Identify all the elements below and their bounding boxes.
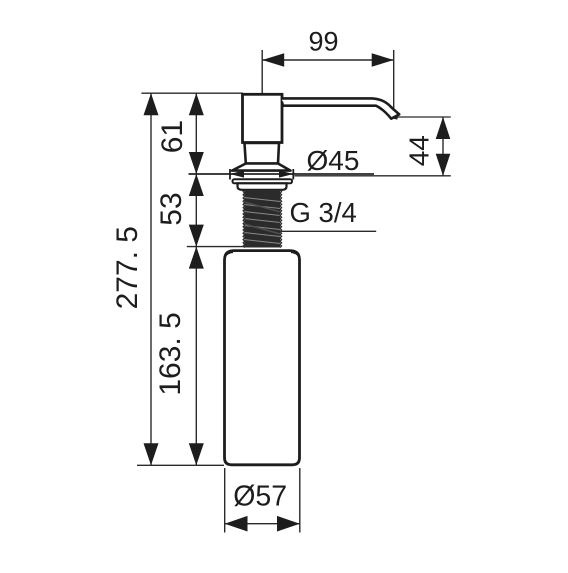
flange xyxy=(232,164,291,171)
dimension 99: left extension line xyxy=(261,50,263,93)
bottle shoulder step left xyxy=(225,252,233,257)
dimension 99: left arrow xyxy=(262,53,284,67)
dimension O57: right extension line xyxy=(299,468,301,533)
dimension 99: right arrow xyxy=(372,53,394,67)
svg-text:Ø45: Ø45 xyxy=(307,145,360,176)
dimension 99: dimension line xyxy=(262,59,394,61)
bottle body xyxy=(225,251,300,465)
pump head body xyxy=(243,94,283,142)
dimension 61: bottom arrow xyxy=(189,152,204,174)
svg-text:99: 99 xyxy=(308,27,338,57)
neck collar xyxy=(245,143,280,164)
svg-text:53: 53 xyxy=(155,192,188,225)
bottle shoulder step right xyxy=(291,252,299,257)
dimension 99: right extension line xyxy=(393,50,395,108)
dimension 277.5: dimension line xyxy=(150,93,152,465)
dimension O57: left extension line xyxy=(224,468,226,533)
svg-text:61: 61 xyxy=(156,120,189,153)
junction extension line at bottle top xyxy=(187,246,246,248)
dimension O57: right arrow xyxy=(277,516,300,532)
spout tube xyxy=(282,98,399,118)
dimension 44: dimension line xyxy=(442,117,444,176)
spout base fillet xyxy=(282,101,284,105)
junction extension line at flange level (O45 dimension line) xyxy=(189,173,375,175)
dimension O45: right arrow xyxy=(279,170,293,177)
dimension O57: left arrow xyxy=(225,516,248,532)
threaded shank xyxy=(243,190,282,248)
locknut xyxy=(238,183,287,190)
extension line 44 top xyxy=(396,116,451,118)
spout tip mark xyxy=(394,118,398,119)
bottom extension line (bottle bottom level) xyxy=(137,464,224,466)
top extension line (head top level) xyxy=(141,92,243,94)
dimension line 61/53/163.5 xyxy=(195,93,197,465)
extension line 44 bottom xyxy=(295,175,451,177)
mounting washer plate xyxy=(233,179,293,183)
svg-text:G 3/4: G 3/4 xyxy=(290,197,357,228)
dimension 163.5: top arrow xyxy=(189,247,204,269)
svg-text:277. 5: 277. 5 xyxy=(111,226,144,309)
thread serration left edge xyxy=(243,190,245,248)
thread serration right edge xyxy=(280,190,282,248)
svg-text:44: 44 xyxy=(404,135,435,166)
svg-text:163. 5: 163. 5 xyxy=(154,312,187,395)
dimension 61: top arrow xyxy=(189,93,204,115)
dimension 277.5: bottom arrow xyxy=(144,443,159,465)
dimension 44: bottom arrow xyxy=(436,154,451,176)
dimension 53: bottom arrow xyxy=(189,225,204,247)
dimension O45: right tick xyxy=(292,169,294,180)
dimension O45: left arrow xyxy=(230,170,244,177)
dimension O57: dimension line xyxy=(225,523,300,525)
svg-text:Ø57: Ø57 xyxy=(233,481,287,513)
label G 3/4 leader line xyxy=(281,230,377,232)
dimension 277.5: top arrow xyxy=(144,93,159,115)
dimension O45: left tick xyxy=(229,169,231,180)
dimension 44: top arrow xyxy=(436,117,451,139)
dimension 53: top arrow xyxy=(189,174,204,196)
dimension 163.5: bottom arrow xyxy=(189,443,204,465)
